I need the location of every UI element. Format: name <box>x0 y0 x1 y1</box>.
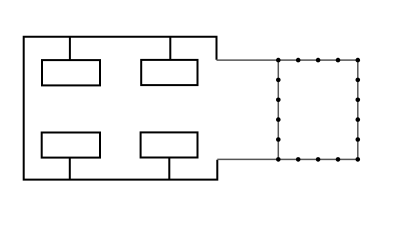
pin dot P11 <box>336 157 341 162</box>
pin dot P4 <box>336 58 341 63</box>
outline <box>24 37 218 180</box>
pin dot P13 <box>296 157 301 162</box>
block B1 <box>42 60 100 85</box>
pin dot P8 <box>356 117 361 122</box>
pin dot P17 <box>276 98 281 103</box>
pin dot P12 <box>316 157 321 162</box>
pin dot P1 <box>276 58 281 63</box>
pin dot P9 <box>356 137 361 142</box>
pin square <box>278 60 358 159</box>
block B2 <box>141 60 197 85</box>
wire net bottom connect <box>217 158 278 160</box>
pin dot P18 <box>276 78 281 83</box>
pin dot P6 <box>356 78 361 83</box>
pin dot P10 <box>356 157 361 162</box>
pin dot P3 <box>316 58 321 63</box>
pin dot P5 <box>356 58 361 63</box>
wire net top connect <box>217 59 279 61</box>
block B3 <box>42 133 100 158</box>
wire W2 <box>169 37 171 60</box>
wire W4 <box>168 158 170 180</box>
wire W1 <box>69 37 71 60</box>
pin dot P2 <box>296 58 301 63</box>
pin dot P7 <box>356 98 361 103</box>
wire W3 <box>69 158 71 180</box>
pin dot P14 <box>276 157 281 162</box>
pin dot P16 <box>276 117 281 122</box>
block B4 <box>141 132 198 157</box>
pin dot P15 <box>276 137 281 142</box>
